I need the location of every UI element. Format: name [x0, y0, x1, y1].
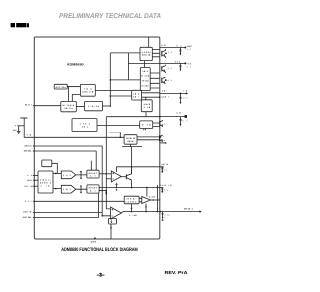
svg-text:C 1B: C 1B	[41, 184, 51, 187]
svg-text:RESET: RESET	[89, 172, 98, 175]
transistor Q1: PFO output	[126, 167, 131, 188]
wire: VOUT rail with arrow off page	[122, 212, 201, 213]
box H: reset pulse	[141, 100, 152, 112]
wire: O bottom tee down to PFO transistor	[122, 144, 142, 174]
wire: drop to U3	[146, 188, 148, 197]
box I: osc select	[42, 160, 52, 167]
wire: collector line to LL OUT pin	[116, 167, 163, 172]
node: BATT ON dot	[165, 142, 167, 144]
pin row BATT ON: short stub right	[160, 142, 165, 144]
wire: bus feed into G	[110, 95, 131, 97]
wire: bus to tall box	[110, 79, 140, 81]
svg-text:BAB 1B: BAB 1B	[142, 54, 151, 57]
pin row LL OUT: stub past border	[160, 166, 164, 168]
svg-text:OSC IN: OSC IN	[24, 144, 32, 147]
node: junction VCC row at border	[159, 116, 161, 118]
svg-text:4B A: 4B A	[133, 92, 140, 95]
wire: D output to vertical bus	[103, 105, 111, 107]
pin row CE OUT: y187.6 stub	[160, 187, 163, 189]
svg-text:VCC: VCC	[175, 60, 181, 63]
box K: reset output driver	[87, 170, 99, 178]
op-amp U2: PFI comparator	[111, 207, 122, 219]
node: junction J-P2	[55, 188, 57, 190]
svg-text:A/3M: A/3M	[149, 196, 156, 199]
transistor Q6: batt drive	[160, 135, 168, 142]
svg-text:+: +	[15, 125, 17, 128]
node: junction emitter on PFO line	[131, 187, 133, 189]
svg-text:B 2B: B 2B	[142, 124, 151, 127]
box D: delay	[85, 101, 103, 110]
wire: box1 down to tall box	[144, 61, 146, 68]
svg-text:VB: VB	[27, 133, 32, 136]
node: arrowhead VOUT	[200, 210, 202, 212]
node: junction at border y97	[159, 96, 161, 98]
current source marks CS2	[105, 191, 107, 194]
wire: drop from box1 wire to tall box feed	[127, 53, 129, 80]
pin row VCC: line y63.4	[128, 62, 185, 64]
node: taps on P1 wire	[80, 171, 82, 173]
wire: G outputs	[142, 93, 160, 97]
node: taps on P2 wire	[80, 185, 82, 187]
capacitor C4 on VCC2	[176, 111, 187, 126]
wire: LL IN pin stub	[34, 174, 38, 176]
wire: L output / PFO line to border	[99, 187, 160, 189]
svg-text:1 XX A: 1 XX A	[80, 122, 91, 125]
node: VOUT pin dot	[184, 47, 186, 49]
header: part number ADM8690	[11, 23, 29, 27]
op-amp U1: power fail comparator	[111, 171, 121, 182]
svg-text:+5V: +5V	[187, 62, 192, 65]
capacitor C5 on LL OUT	[161, 163, 168, 173]
box G: gate	[132, 90, 142, 100]
svg-text:..: ..	[45, 164, 50, 166]
svg-text:4.7: 4.7	[187, 48, 191, 51]
svg-text:CE IN: CE IN	[24, 185, 33, 188]
wire: internal vertical near border	[157, 185, 159, 212]
pin row RESET: line y93.4 with arrow	[160, 92, 186, 94]
svg-text:PFI: PFI	[25, 200, 32, 203]
node: junction VBATT riser	[120, 137, 122, 139]
capacitor C7 on VOUT rail	[161, 212, 169, 221]
wire: J to pentagon P2	[53, 188, 61, 190]
svg-text:GND: GND	[91, 240, 97, 243]
svg-text:AB W: AB W	[127, 140, 133, 143]
capacitor C3 on RESET row	[179, 93, 187, 105]
pin row VOUT: line y47.5	[160, 47, 185, 49]
node: junction collector	[131, 166, 133, 168]
wire: reset row2 to corridor	[99, 190, 106, 192]
wire: OSC SEL pin line across and down	[34, 151, 98, 217]
svg-text:OSC SEL: OSC SEL	[23, 216, 33, 219]
capacitor C2 on VCC	[175, 60, 192, 71]
wire: U3 output to border	[150, 199, 160, 201]
svg-text:OSC IN: OSC IN	[23, 211, 32, 214]
node: junction U3 drop	[145, 206, 147, 208]
svg-text:WDI: WDI	[27, 179, 33, 182]
wire: box1 to top border	[148, 37, 150, 47]
svg-text:2.1: 2.1	[168, 79, 172, 82]
svg-text:AB/B: AB/B	[144, 103, 151, 106]
wire: B to box G	[95, 90, 131, 92]
svg-text:2.1: 2.1	[182, 120, 187, 123]
svg-text:2.1: 2.1	[164, 168, 168, 171]
wire: box1 outputs to border	[152, 50, 160, 57]
svg-text:4TH B: 4TH B	[126, 198, 135, 201]
svg-text:1-B 1: 1-B 1	[63, 188, 71, 191]
wire: PFI line to reference box M	[34, 200, 124, 202]
transistor Q4: backup switch	[162, 77, 172, 84]
wire: P outputs to border transistors	[153, 123, 160, 126]
wire: WDI pin to watchdog box	[34, 105, 61, 107]
outer diagram border	[34, 37, 160, 239]
wire: M bottom drop to VOUT rail	[131, 204, 133, 212]
wire: J to pentagon P1	[53, 172, 61, 174]
node: junction D-bus	[110, 105, 112, 107]
wire: bus to U1 inverting input	[106, 178, 111, 180]
svg-text:RESET: RESET	[89, 187, 98, 190]
wire: riser to VBATT line	[119, 132, 121, 137]
pin row VCC2: line y116.6	[160, 116, 186, 118]
svg-text:VOUT: VOUT	[187, 45, 193, 48]
transistor Q3: VBATT switch	[162, 65, 172, 73]
node: junction x157 on PFO line	[157, 187, 159, 189]
box A: oscillator	[54, 84, 67, 89]
svg-text:0.1: 0.1	[187, 65, 191, 68]
box C: watchdog timebase	[61, 101, 77, 111]
svg-text:A 1B: A 1B	[144, 106, 151, 109]
svg-text:AB: AB	[162, 89, 166, 92]
svg-text:W CSE: W CSE	[141, 75, 150, 78]
box B: timebase generator	[80, 84, 95, 96]
wire: VBATT pin line into battery switchover	[24, 136, 124, 138]
wire: CE IN pin stub	[34, 185, 38, 187]
pentagon P1: reset flag	[61, 171, 76, 179]
tall box: VCC/VBATT switchover comparator	[140, 68, 150, 91]
wire: riser from watchdog C into B lower pin	[72, 95, 80, 102]
wire: I output down to J-P1 wire	[52, 163, 58, 173]
svg-text:BTOR A: BTOR A	[40, 181, 52, 184]
svg-text:t.: t.	[164, 135, 168, 138]
wire: K output to op-amp U1	[99, 173, 111, 175]
svg-text:1-A SAT A: 1-A SAT A	[125, 200, 137, 203]
svg-text:4B: 4B	[183, 89, 188, 92]
wire: P2 to box L with tap	[76, 186, 87, 193]
node: rail junctions	[131, 211, 133, 213]
svg-text:2.1: 2.1	[168, 67, 172, 70]
wire: WDI pin stub	[34, 179, 38, 181]
transistor Q2: VCC switch	[162, 49, 173, 58]
wire: box A to box B	[67, 86, 80, 88]
svg-text:2.1: 2.1	[183, 97, 187, 100]
wire: long vertical bus from top to comparator area	[109, 53, 111, 107]
transistor Q5: CE gate	[160, 120, 169, 126]
current source CS3: U2 bias to ground	[109, 219, 117, 240]
svg-text:LL: LL	[28, 174, 33, 177]
svg-text:TA B 1.E: TA B 1.E	[160, 184, 172, 187]
svg-text:AB: AB	[176, 111, 181, 114]
wire: P1 to box K with tap	[76, 171, 87, 178]
svg-text:AB: AB	[161, 44, 166, 47]
node: junction feed to comparator U3	[146, 187, 148, 189]
svg-text:W SEA: W SEA	[142, 85, 150, 88]
node: junction U3 out	[152, 199, 154, 201]
wire: OSC SEL riser to reset box K	[91, 151, 96, 170]
wire: H riser to G output line	[145, 97, 147, 100]
current source CS1 under U1	[115, 183, 118, 191]
wire: M outputs to comparator U3	[139, 198, 142, 202]
svg-text:4.1: 4.1	[164, 189, 168, 192]
svg-text:SEAL/: SEAL/	[40, 178, 52, 181]
op-amp U3: reset comparator	[142, 197, 151, 204]
wire: left pin stubs outside border	[33, 106, 34, 218]
wire: tall box outputs to border	[150, 73, 159, 88]
wire: U1 output to Q1 base	[121, 176, 126, 178]
wire: H bottom to VCC pin row	[106, 112, 160, 209]
box J: reset generator	[38, 171, 53, 193]
svg-text:OSC SEL: OSC SEL	[24, 149, 32, 152]
svg-text:1.: 1.	[166, 142, 170, 145]
svg-text:0.1: 0.1	[177, 44, 182, 47]
svg-text:AB TIA: AB TIA	[64, 107, 73, 110]
svg-text:1.: 1.	[164, 122, 169, 125]
capacitor C6 on CE OUT	[160, 184, 172, 193]
node: VCC2 pin square dot	[185, 115, 187, 118]
svg-text:1- TaB: 1- TaB	[129, 214, 137, 217]
svg-text:1 t5s 64: 1 t5s 64	[88, 105, 100, 108]
node: RESET arrowhead	[186, 92, 188, 94]
node: junction M drop	[131, 208, 133, 210]
svg-text:2B 1: 2B 1	[133, 96, 139, 99]
svg-text:3.6V: 3.6V	[13, 129, 18, 132]
svg-text:TO SIE: TO SIE	[142, 80, 150, 83]
svg-text:1-A 1: 1-A 1	[63, 174, 71, 177]
svg-text:OSC SEL: OSC SEL	[56, 86, 67, 89]
svg-text:AB 1: AB 1	[82, 125, 89, 128]
wire: E output right then down to box P	[97, 125, 140, 127]
battery B1 (external backup)	[13, 118, 28, 137]
svg-text:LINE JTB: LINE JTB	[82, 90, 94, 93]
svg-text:W. TER B: W. TER B	[63, 104, 75, 107]
svg-text:1.3OSA: 1.3OSA	[142, 51, 152, 54]
svg-text:VB A: VB A	[142, 70, 148, 73]
svg-text:TB &: TB &	[84, 88, 92, 91]
box L: watchdog output driver	[87, 185, 99, 193]
svg-text:AB W: AB W	[161, 163, 168, 166]
wire: OSC IN pin line across and down	[34, 146, 110, 216]
wire: gray link over box O	[109, 131, 120, 133]
node: junction J-P1	[55, 173, 57, 175]
capacitor C1 on VOUT	[177, 44, 193, 55]
svg-text:A2B 1: A2B 1	[161, 95, 169, 98]
wire: C to D	[76, 106, 84, 108]
svg-text:1.1: 1.1	[168, 51, 173, 54]
wire: riser from watchdog C to A-B wire	[68, 87, 70, 102]
box O: battery switchover drive	[124, 135, 137, 145]
node: VCC pin dot	[184, 62, 186, 64]
svg-text:GVB W: GVB W	[126, 137, 135, 140]
box1: top right control	[140, 47, 152, 60]
svg-text:MAIN 1: MAIN 1	[184, 208, 194, 211]
svg-text:A-1: A-1	[90, 175, 96, 178]
svg-text:1.: 1.	[164, 216, 168, 219]
svg-text:WDI: WDI	[25, 103, 32, 106]
wire: top link to box1	[110, 52, 140, 54]
svg-text:4.7u: 4.7u	[164, 213, 169, 216]
box P: chip enable latch	[140, 121, 153, 130]
box M: 1.3V reference select	[124, 196, 139, 204]
box E: 4.7M oscillator	[72, 119, 97, 132]
svg-text:w.: w.	[164, 140, 168, 142]
node: junction bus-G	[110, 95, 112, 97]
svg-text:B-1: B-1	[90, 190, 96, 193]
wire: O outputs to border switch transistors	[137, 137, 160, 140]
pentagon P2: watchdog flag	[61, 185, 76, 193]
ground pin tick	[94, 237, 96, 239]
wire: U3 bottom drop to VOUT rail	[145, 204, 147, 212]
node: junction bus top feed	[110, 79, 112, 81]
